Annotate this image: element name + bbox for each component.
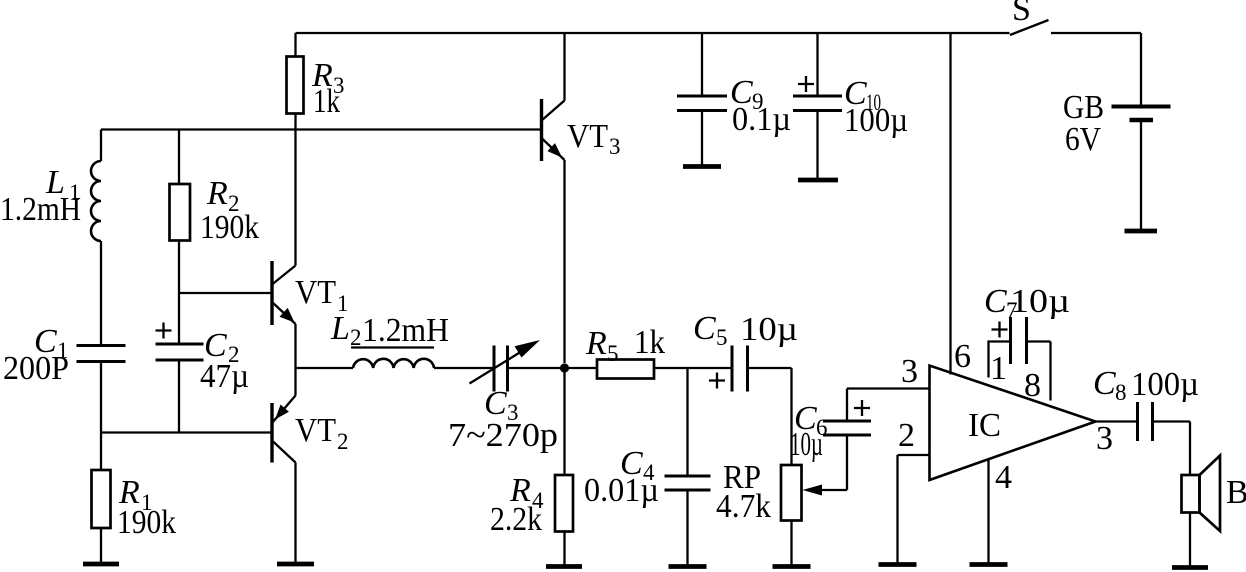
- ground C9: [683, 164, 721, 169]
- svg-text:1k: 1k: [313, 83, 340, 120]
- svg-text:6: 6: [954, 338, 971, 375]
- wire L2 to C3: [434, 367, 494, 369]
- pin label 3: [901, 353, 918, 390]
- wire C3 to node: [508, 367, 565, 369]
- svg-text:47µ: 47µ: [200, 358, 249, 395]
- pin label 6: [954, 338, 971, 375]
- svg-text:190k: 190k: [200, 209, 259, 246]
- label VT1: [295, 274, 349, 316]
- ground VT2: [277, 562, 314, 567]
- label GB 6V: [1063, 89, 1104, 158]
- svg-text:6V: 6V: [1065, 121, 1101, 158]
- svg-text:1: 1: [990, 350, 1007, 387]
- label L2 1.2mH: [330, 310, 449, 350]
- svg-text:0.1µ: 0.1µ: [732, 101, 791, 138]
- svg-text:4.7k: 4.7k: [716, 488, 771, 525]
- ground C4: [669, 564, 707, 569]
- svg-text:R: R: [585, 325, 607, 362]
- wire pin 3 input: [847, 387, 930, 389]
- svg-text:10µ: 10µ: [740, 311, 798, 348]
- wire VT1 base: [179, 292, 271, 294]
- svg-text:200P: 200P: [3, 350, 69, 387]
- capacitor C5: [709, 346, 792, 392]
- label C8 100u: [1093, 365, 1199, 405]
- node junction dot: [560, 363, 569, 372]
- wire mid out to L2: [296, 367, 354, 369]
- svg-text:VT: VT: [295, 274, 336, 311]
- pin label 3 output: [1096, 420, 1113, 457]
- label VT3: [567, 118, 621, 159]
- svg-text:C: C: [693, 310, 716, 347]
- label B: [1226, 474, 1246, 511]
- capacitor C7: [989, 317, 1051, 401]
- svg-text:190k: 190k: [117, 504, 176, 541]
- svg-text:IC: IC: [968, 407, 1001, 444]
- wire top rail left segment: [296, 32, 1010, 34]
- wire bottom bus C1 C2 to VT2 base: [101, 431, 271, 433]
- wire pin 2 input: [898, 455, 930, 564]
- svg-text:2.2k: 2.2k: [490, 501, 542, 538]
- ground battery: [1125, 229, 1158, 234]
- svg-text:2: 2: [898, 417, 915, 454]
- pin label 2: [898, 417, 915, 454]
- resistor R1: [92, 433, 111, 564]
- svg-text:C: C: [984, 283, 1007, 320]
- wire node down: [563, 368, 565, 475]
- svg-text:2: 2: [337, 429, 349, 454]
- ground C10: [798, 178, 838, 183]
- ground R4: [546, 564, 582, 569]
- transistor VT2: [272, 368, 296, 564]
- svg-text:10µ: 10µ: [1010, 283, 1070, 320]
- resistor R3: [287, 33, 304, 130]
- potentiometer RP: [781, 368, 847, 565]
- svg-text:3: 3: [609, 134, 621, 159]
- svg-text:L: L: [330, 310, 350, 347]
- wire base rail y=129.5: [101, 128, 540, 130]
- resistor R2: [170, 130, 191, 294]
- label C4 0.01u: [584, 445, 659, 509]
- ground pin 4: [970, 562, 1008, 567]
- svg-text:5: 5: [607, 341, 619, 366]
- svg-text:1.2mH: 1.2mH: [0, 191, 81, 228]
- capacitor C4: [665, 368, 711, 565]
- svg-text:4: 4: [995, 459, 1012, 496]
- wire top rail right segment: [1051, 32, 1141, 34]
- svg-text:7~270p: 7~270p: [448, 417, 558, 454]
- pin label 8: [1024, 367, 1041, 404]
- resistor R5: [565, 360, 733, 379]
- battery GB: [1112, 33, 1171, 229]
- capacitor C10: [793, 33, 842, 178]
- resistor R4: [555, 475, 573, 565]
- label S: [1012, 0, 1031, 28]
- svg-text:3: 3: [901, 353, 918, 390]
- label C5 10u: [693, 310, 798, 350]
- label R3 1k: [311, 57, 345, 120]
- svg-text:1.2mH: 1.2mH: [362, 312, 449, 349]
- inductor L2: [353, 359, 434, 368]
- label R2 190k: [200, 175, 259, 246]
- ground pin 2: [879, 562, 917, 567]
- ground R1: [83, 562, 119, 567]
- capacitor C1: [77, 346, 126, 433]
- ground RP: [773, 564, 811, 569]
- svg-text:VT: VT: [567, 118, 608, 155]
- wire pin 4: [987, 459, 989, 564]
- svg-text:B: B: [1226, 474, 1246, 511]
- label C10 100u: [844, 75, 908, 139]
- label C9 0.1u: [730, 74, 791, 138]
- transistor VT1: [272, 130, 296, 369]
- transistor VT3: [542, 33, 565, 363]
- label L1 1.2mH: [0, 164, 81, 228]
- label R5 1k: [585, 324, 665, 366]
- svg-text:R: R: [206, 175, 228, 212]
- svg-text:10µ: 10µ: [790, 426, 823, 463]
- capacitor C2: [156, 293, 204, 433]
- capacitor C9: [677, 33, 727, 165]
- pin label 4: [995, 459, 1012, 496]
- wire output pin 3: [1096, 420, 1138, 422]
- pin label 1: [990, 350, 1007, 387]
- svg-text:S: S: [1012, 0, 1031, 28]
- switch S: [1010, 20, 1049, 35]
- label C1 200P: [3, 323, 69, 387]
- capacitor C3 variable: [470, 340, 541, 392]
- inductor L1: [91, 130, 101, 346]
- svg-text:8: 8: [1024, 367, 1041, 404]
- wire pin 6 from rail: [949, 33, 951, 375]
- op-amp IC: [930, 366, 1096, 481]
- label RP 4.7k: [716, 459, 771, 525]
- label C3 7~270p: [448, 385, 558, 454]
- svg-text:C: C: [1093, 365, 1116, 402]
- svg-text:0.01µ: 0.01µ: [584, 472, 659, 509]
- label R1 190k: [117, 474, 176, 541]
- label R4 2.2k: [490, 472, 544, 538]
- label C6 10u: [790, 400, 828, 463]
- ground speaker: [1172, 565, 1208, 570]
- capacitor C6: [823, 389, 871, 491]
- svg-text:2: 2: [350, 325, 362, 350]
- svg-text:VT: VT: [295, 412, 336, 449]
- svg-text:100µ: 100µ: [844, 102, 908, 139]
- speaker B: [1182, 422, 1221, 567]
- svg-text:1k: 1k: [634, 324, 665, 361]
- label VT2: [295, 412, 349, 454]
- svg-text:8: 8: [1115, 380, 1127, 405]
- svg-text:100µ: 100µ: [1131, 366, 1199, 403]
- label C2 47u: [200, 327, 249, 395]
- label C7 10u: [984, 283, 1070, 323]
- capacitor C8: [1138, 402, 1191, 441]
- svg-text:3: 3: [1096, 420, 1113, 457]
- svg-text:5: 5: [716, 325, 728, 350]
